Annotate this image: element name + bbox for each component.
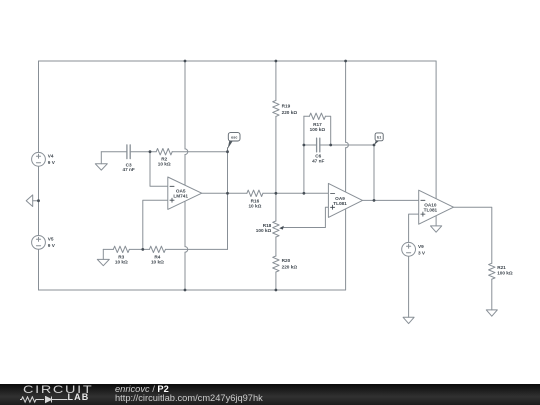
wire OA5 V- lower segment bbox=[184, 252, 186, 290]
wire OA5 output to R16 bbox=[202, 192, 247, 194]
wire split-supply ground stub bbox=[33, 200, 39, 202]
op-amp OA5 LM741 bbox=[168, 177, 202, 209]
wire b1 node down to OA9 output bbox=[373, 145, 375, 200]
voltage source V5 9 V bbox=[32, 236, 46, 250]
svg-text:9 V: 9 V bbox=[48, 243, 56, 248]
wire OA5 V- drop to bottom rail (passes behind op-amp) bbox=[184, 155, 186, 247]
capacitor C6 47 nF bbox=[317, 138, 320, 152]
voltage source V9 3 V bbox=[402, 242, 416, 256]
wire between V4 and V5 bbox=[38, 166, 40, 235]
node top rail / OA9 V+ bbox=[344, 60, 347, 63]
svg-text:V4: V4 bbox=[48, 153, 54, 158]
svg-text:10 kΩ: 10 kΩ bbox=[248, 204, 261, 209]
svg-text:osc: osc bbox=[231, 136, 237, 140]
ground at C3 bbox=[95, 152, 107, 170]
svg-text:220 kΩ: 220 kΩ bbox=[282, 110, 298, 115]
svg-text:V5: V5 bbox=[48, 237, 54, 242]
op-amp OA9 TL081 bbox=[328, 183, 362, 217]
wire OA9 noninverting input from R18 wiper bbox=[282, 207, 328, 227]
node R17 right / C6 row bbox=[329, 144, 332, 147]
resistor R21 100 k bbox=[489, 263, 495, 279]
wire feedback left riser bbox=[303, 116, 305, 193]
resistor R3 10 k bbox=[113, 246, 129, 252]
wire R20 to bottom rail bbox=[275, 272, 277, 290]
svg-text:R21: R21 bbox=[497, 265, 506, 270]
ground at supply midpoint (rotated left) bbox=[26, 195, 33, 207]
wire OA10 V- stub to ground bbox=[435, 216, 437, 226]
capacitor C3 47 nF bbox=[127, 145, 130, 159]
svg-text:9 V: 9 V bbox=[48, 160, 56, 165]
wire C3 ground lead bbox=[101, 151, 127, 153]
node feedback left / OA9 input bbox=[303, 192, 306, 195]
node b1 junction bbox=[373, 144, 376, 147]
node B (R3/R4/OA5 noninverting) bbox=[141, 248, 144, 251]
svg-text:10 kΩ: 10 kΩ bbox=[158, 162, 171, 167]
svg-text:TL081: TL081 bbox=[333, 201, 347, 206]
wire C6 to b1 node bbox=[320, 144, 374, 146]
node b1 riser / OA9 output bbox=[373, 199, 376, 202]
wire R17 right lead bbox=[325, 116, 330, 145]
svg-text:100 kΩ: 100 kΩ bbox=[497, 270, 513, 275]
wire R16 node to R18 bbox=[275, 193, 277, 221]
svg-text:TL081: TL081 bbox=[424, 208, 438, 213]
svg-text:LM741: LM741 bbox=[173, 194, 188, 199]
node feedback left / C6 row bbox=[303, 144, 306, 147]
wire ground to R3 bbox=[103, 248, 113, 250]
wire OA9 V- drop to bottom rail (passes behind op-amp) bbox=[345, 148, 347, 290]
node bottom rail / R20 bbox=[275, 289, 278, 292]
wire top rail to R19 bbox=[275, 61, 277, 100]
resistor R19 220 k bbox=[273, 100, 279, 116]
resistor R17 100 k bbox=[309, 113, 325, 119]
svg-text:10 kΩ: 10 kΩ bbox=[115, 260, 128, 265]
svg-text:100 kΩ: 100 kΩ bbox=[256, 228, 272, 233]
wire hop over C6 row bbox=[346, 142, 349, 148]
net flag osc bbox=[228, 133, 240, 152]
ground at R21 bbox=[486, 310, 497, 316]
wire R21 to ground bbox=[491, 279, 493, 310]
potentiometer R18 100 k with wiper arrow bbox=[273, 221, 279, 237]
svg-text:47 nF: 47 nF bbox=[312, 159, 324, 164]
wire R4 to feedback riser bbox=[165, 248, 227, 250]
ground at V9 bbox=[403, 317, 414, 323]
node top rail / OA5 V+ bbox=[184, 60, 187, 63]
node A (C3/R2/OA5 inverting) bbox=[149, 150, 152, 153]
wire R2 to osc node bbox=[172, 151, 227, 153]
wire hop over R2 row bbox=[185, 149, 188, 155]
net flag b1 bbox=[374, 133, 383, 145]
wire OA9 output to OA10 inverting input bbox=[363, 199, 419, 201]
svg-text:100 kΩ: 100 kΩ bbox=[310, 127, 326, 132]
wire C6 left lead bbox=[304, 144, 317, 146]
wire C3 to node A bbox=[130, 151, 156, 153]
node supply midpoint bbox=[37, 199, 40, 202]
resistor R16 10 k bbox=[247, 190, 263, 196]
resistor R4 10 k bbox=[149, 246, 165, 252]
wire OA10 noninverting input to V9 bbox=[409, 214, 419, 242]
svg-text:b1: b1 bbox=[377, 136, 381, 140]
wire V5 to bottom rail bbox=[38, 249, 40, 290]
node OA5 output / riser bbox=[226, 192, 229, 195]
wire OA10 V+ drop from top rail bbox=[435, 61, 437, 207]
op-amp OA10 TL081 bbox=[419, 190, 454, 224]
wire bottom supply rail bbox=[39, 289, 346, 291]
svg-text:47 nF: 47 nF bbox=[122, 167, 134, 172]
svg-text:R19: R19 bbox=[282, 103, 291, 108]
wire OA5 V+ drop from top rail bbox=[184, 61, 186, 149]
svg-text:V9: V9 bbox=[418, 244, 424, 249]
wire left supply rail (V+ branch) bbox=[38, 61, 40, 152]
wire hop over R3/R4 row bbox=[185, 247, 188, 253]
ground at OA10 V- pin bbox=[431, 226, 442, 232]
svg-text:10 kΩ: 10 kΩ bbox=[151, 260, 164, 265]
svg-text:R20: R20 bbox=[282, 258, 291, 263]
voltage source V4 9 V bbox=[32, 152, 46, 166]
node bottom rail / OA5 V- bbox=[184, 289, 187, 292]
wire R18 to R20 bbox=[275, 237, 277, 256]
node top rail / R19 bbox=[275, 60, 278, 63]
resistor R2 10 k bbox=[156, 149, 172, 155]
node osc junction bbox=[226, 150, 229, 153]
wire R16 to OA9 inverting input bbox=[263, 192, 329, 194]
wire top supply rail bbox=[39, 60, 437, 62]
resistor R20 220 k bbox=[273, 256, 279, 272]
svg-text:220 kΩ: 220 kΩ bbox=[282, 264, 298, 269]
wire OA9 V+ drop from top rail bbox=[345, 61, 347, 142]
wire R19 to R16 node bbox=[275, 116, 277, 193]
wire node A down to OA5 inverting input bbox=[150, 152, 168, 187]
wire OA5 noninverting input to R3/R4 node bbox=[143, 200, 168, 249]
wire OA10 output to R21 bbox=[454, 207, 492, 263]
wire R17 left lead bbox=[304, 115, 310, 117]
svg-text:3 V: 3 V bbox=[418, 251, 426, 256]
node R16 / bus bbox=[275, 192, 278, 195]
wire feedback riser (osc node to R4) bbox=[227, 152, 229, 250]
ground at R3 bbox=[97, 249, 109, 265]
wire V9 to ground bbox=[408, 256, 410, 317]
wire R3 to node B bbox=[129, 248, 149, 250]
